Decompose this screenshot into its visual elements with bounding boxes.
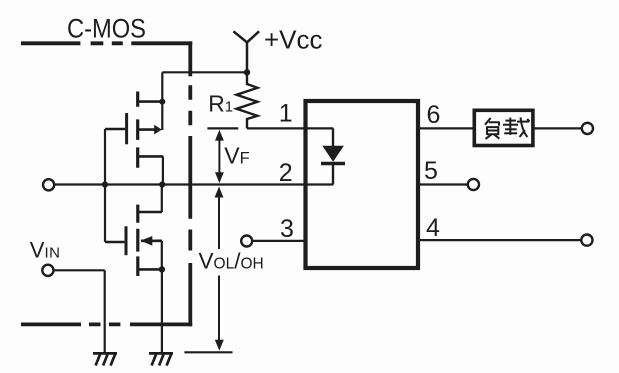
VIN terminal circle	[42, 265, 53, 276]
svg-text:2: 2	[279, 159, 293, 187]
wire: NMOS source to ground	[161, 269, 163, 352]
ground symbol (left)	[93, 353, 117, 365]
C-MOS package outline right border (thick dashed)	[188, 41, 192, 326]
transistor Q2 NMOS gate lead	[105, 241, 124, 243]
transistor Q1 PMOS drain stub (bottom) and wire to output node	[138, 155, 163, 158]
svg-text:1: 1	[279, 99, 293, 127]
transistor Q2 NMOS substrate tie vertical	[161, 241, 163, 270]
svg-text:+Vcc: +Vcc	[264, 25, 323, 55]
wire: pin 5 to terminal	[418, 183, 468, 185]
transistor Q1 PMOS source stub (top)	[138, 100, 163, 103]
VOL/OH dimension bottom reference line	[184, 351, 232, 353]
node: NMOS source junction dot	[159, 266, 165, 272]
wire: Vcc rail horizontal	[162, 71, 247, 73]
node: output junction dot	[159, 181, 165, 187]
wire: Vcc drop to PMOS source	[161, 72, 163, 130]
transistor Q2 NMOS drain stub (top) and wire to output node	[138, 211, 162, 214]
pin 4 terminal circle	[581, 235, 592, 246]
wire: gate bus vertical (input node to both gates)	[104, 129, 106, 242]
pin 3 terminal circle	[241, 236, 252, 247]
svg-text:3: 3	[280, 215, 294, 243]
C-MOS package outline top border (thick dashed)	[21, 41, 192, 45]
transistor Q2 NMOS gate bar	[125, 226, 128, 255]
VF dimension reference line	[207, 127, 238, 129]
optocoupler U1 package box	[306, 101, 419, 268]
load box (负载)	[474, 110, 533, 145]
pin 5 terminal circle	[468, 179, 479, 190]
resistor R1	[237, 72, 258, 128]
label 负载 (load, drawn strokes)	[485, 117, 530, 138]
node: input junction dot	[102, 181, 108, 187]
svg-text:4: 4	[426, 214, 440, 242]
node: Vcc junction dot	[244, 69, 250, 75]
transistor Q1 PMOS channel bar (3 segments)	[136, 92, 139, 168]
transistor Q2 NMOS channel bar (3 segments)	[136, 205, 139, 276]
transistor Q1 PMOS gate lead	[105, 128, 125, 130]
svg-text:6: 6	[427, 101, 441, 129]
负 character	[485, 118, 491, 125]
transistor Q2 NMOS source stub (bottom)	[138, 268, 162, 271]
载 character	[505, 120, 516, 122]
node: PMOS source/substrate junction dot	[159, 99, 165, 105]
wire: load box to output terminal	[533, 127, 582, 129]
svg-text:C-MOS: C-MOS	[67, 13, 146, 43]
wire: pin 3 terminal to optocoupler	[252, 240, 305, 242]
wire: pin 4 to terminal	[418, 239, 581, 241]
wire: input terminal to LED cathode (pin 2 net)	[54, 183, 333, 185]
LED D1 inside optocoupler	[332, 128, 334, 146]
VF dimension arrow (double headed)	[218, 133, 220, 180]
VOL/OH dimension arrow (double headed)	[218, 191, 220, 341]
input terminal circle	[43, 179, 54, 190]
wire: R1 to pin 1 and LED anode	[247, 127, 333, 129]
pin 6 output terminal circle	[582, 123, 593, 134]
svg-text:5: 5	[424, 157, 438, 185]
Vcc antenna symbol	[233, 31, 259, 72]
ground symbol (right)	[149, 353, 173, 365]
wire: VIN terminal to ground drop	[54, 270, 105, 352]
transistor Q1 PMOS substrate stub with arrow	[138, 128, 155, 131]
transistor Q2 NMOS substrate stub with arrow	[141, 240, 162, 243]
transistor Q1 PMOS gate bar	[125, 113, 128, 144]
wire: pin 6 to load box	[418, 127, 474, 129]
C-MOS package outline bottom border (thick dashed)	[21, 322, 192, 326]
